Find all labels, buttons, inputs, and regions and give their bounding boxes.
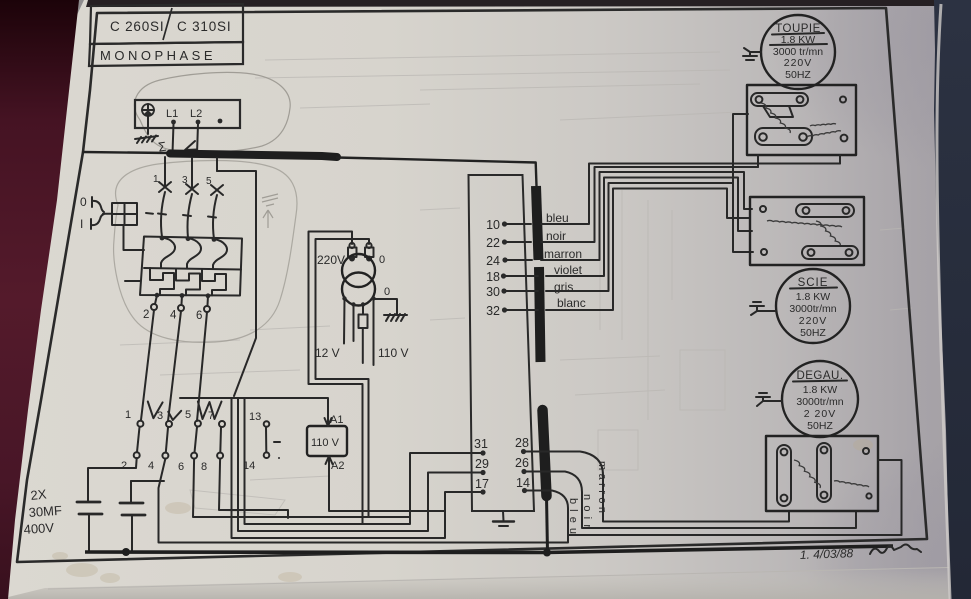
- secondary tap dots: [342, 296, 346, 300]
- main bottom wire thick: [85, 546, 893, 553]
- paper corner wedge top-left: [66, 0, 84, 15]
- svg-text:I: I: [80, 217, 83, 231]
- svg-text:0: 0: [384, 286, 390, 298]
- svg-text:C 310SI: C 310SI: [177, 19, 231, 34]
- transformer feed loop inner: [316, 239, 370, 517]
- svg-text:1: 1: [125, 409, 131, 421]
- TOUPIE right terminal: [841, 135, 848, 142]
- bus thin continuation to strip: [337, 158, 537, 187]
- svg-text:220V: 220V: [799, 315, 828, 327]
- wire pole6 down to aux contact 5: [197, 312, 207, 421]
- TOUPIE bracket: [763, 106, 793, 117]
- svg-text:1: 1: [153, 174, 159, 185]
- aux contact bottom circles: [134, 452, 223, 458]
- motor M3 DEGAU: [782, 361, 858, 437]
- DEGAU lower right terminal: [866, 493, 871, 498]
- manual actuator 0/I: [80, 195, 112, 231]
- svg-text:220V: 220V: [317, 253, 345, 267]
- svg-text:2 20V: 2 20V: [804, 408, 836, 420]
- A1 arrow: [325, 406, 332, 426]
- wire contact8 down: [219, 459, 288, 519]
- junction dot capacitors: [122, 548, 130, 556]
- wire 14 bleu lower: [527, 491, 902, 536]
- wire L2 to bus: [197, 124, 198, 154]
- svg-text:1. 4/03/88: 1. 4/03/88: [800, 546, 854, 562]
- overload outlet stems: [155, 295, 208, 305]
- svg-text:18: 18: [486, 270, 500, 284]
- terminal block TOUPIE: [747, 85, 856, 155]
- connector thick bar segment 2: [539, 267, 541, 362]
- right navy table background: [934, 0, 971, 599]
- main bus thick bar: [170, 154, 337, 158]
- svg-text:3000tr/mn: 3000tr/mn: [796, 396, 843, 408]
- terminal block DEGAU: [766, 436, 878, 511]
- contact 13-14 stroke: [265, 427, 267, 452]
- overload outlet circle 4: [178, 305, 184, 311]
- ground under earth terminal: [135, 116, 158, 143]
- inter-block link wire: [733, 114, 748, 197]
- thermal overload block outer: [140, 237, 242, 296]
- linkage zigzag between contacts: [148, 402, 222, 421]
- overload bottom dots: [155, 293, 160, 298]
- svg-text:400V: 400V: [23, 520, 55, 537]
- svg-text:8: 8: [201, 461, 207, 473]
- pencil blob around contactor: [114, 161, 297, 343]
- overload outlet circle 2: [151, 304, 157, 310]
- svg-text:0: 0: [379, 254, 385, 266]
- paper bottom shading below crease: [0, 566, 971, 599]
- svg-text:L2: L2: [190, 108, 202, 120]
- wire loop right of contactor: [217, 171, 256, 396]
- svg-text:12 V: 12 V: [315, 346, 340, 360]
- wire pole2 down to aux contact 1: [141, 310, 154, 420]
- svg-text:50HZ: 50HZ: [800, 327, 826, 339]
- SCIE winding horizontal: [767, 220, 842, 227]
- motor M1 TOUPIE: [761, 15, 835, 89]
- wire violet: [546, 178, 752, 277]
- svg-text:violet: violet: [554, 263, 583, 277]
- title block box C260SI/C310SI: [90, 4, 243, 44]
- svg-text:110 V: 110 V: [311, 437, 340, 449]
- SCIE winding diagonal: [816, 221, 840, 246]
- svg-text:4: 4: [148, 460, 154, 472]
- svg-text:17: 17: [475, 477, 489, 491]
- paper top-right grey corner shading: [770, 0, 971, 170]
- svg-text:26: 26: [515, 456, 529, 470]
- stains: [52, 439, 873, 583]
- title block box MONOPHASE: [89, 42, 243, 66]
- svg-text:110 V: 110 V: [378, 346, 408, 360]
- DEGAU winding diagonal: [794, 460, 820, 488]
- actuator link down to overload: [124, 226, 145, 250]
- signature: [870, 545, 921, 555]
- wire contact2 to capacitors: [88, 458, 137, 470]
- svg-text:6: 6: [196, 310, 202, 322]
- ground at DEGAU: [756, 393, 782, 406]
- mechanical link dashes: [146, 213, 216, 218]
- svg-text:marron: marron: [544, 247, 582, 261]
- A2 arrow: [326, 456, 333, 477]
- TOUPIE winding horizontal: [807, 131, 841, 137]
- pencil scribble arrows: [262, 194, 278, 228]
- terminal block SCIE: [750, 197, 864, 265]
- faint show-through print: [120, 52, 912, 515]
- svg-text:C 260SI: C 260SI: [110, 19, 164, 34]
- DEGAU spare terminal: [863, 448, 869, 454]
- wire 31 route: [245, 398, 482, 524]
- svg-text:1.8 KW: 1.8 KW: [796, 291, 831, 303]
- switch stroke pole 1: [161, 192, 165, 237]
- fuse on 110V tap: [359, 315, 368, 329]
- svg-text:0: 0: [80, 195, 87, 209]
- terminal strip box: [469, 175, 535, 511]
- svg-text:220V: 220V: [784, 57, 813, 69]
- phase mark angle: [185, 141, 197, 150]
- ground at transformer: [384, 314, 407, 321]
- svg-text:2X: 2X: [30, 486, 48, 503]
- svg-text:14: 14: [516, 476, 530, 490]
- relay coil K1: [307, 426, 347, 456]
- spare terminal dot: [218, 119, 223, 124]
- secondary tap wires: [344, 299, 374, 365]
- svg-text:13: 13: [249, 411, 261, 423]
- wire blanc: [546, 189, 750, 311]
- fuse F2: [365, 243, 374, 261]
- TOUPIE link bar top: [751, 93, 808, 106]
- motor M2 SCIE: [776, 269, 850, 343]
- connector tail to bottom wire: [547, 496, 548, 552]
- wire block bottom left: [757, 155, 759, 167]
- wire 17 route: [232, 398, 482, 538]
- breaker contact X pole 2: [186, 184, 198, 194]
- svg-text:3000tr/mn: 3000tr/mn: [789, 303, 836, 315]
- DEGAU link bar right: [817, 443, 831, 502]
- svg-text:50HZ: 50HZ: [785, 69, 811, 81]
- A1 wire to loop: [180, 398, 328, 406]
- aux switch strokes: [137, 427, 221, 453]
- left maroon table background: [0, 0, 79, 599]
- svg-text:10: 10: [486, 218, 500, 232]
- pencil blob around input box: [134, 72, 290, 152]
- overload heater steps row: [150, 268, 226, 295]
- DEGAU link bar left: [777, 445, 791, 506]
- svg-text:32: 32: [486, 304, 500, 318]
- fuse F1: [348, 243, 357, 261]
- wire 28 marron lower: [526, 452, 789, 522]
- svg-text:noir: noir: [546, 229, 566, 243]
- input terminal box: [135, 100, 240, 128]
- wire cap2 up: [131, 480, 164, 482]
- svg-text:gris: gris: [554, 280, 573, 294]
- svg-text:30: 30: [486, 285, 500, 299]
- svg-text:bleu: bleu: [567, 498, 579, 534]
- svg-text:A1: A1: [330, 414, 343, 426]
- main bus line left segment: [83, 152, 170, 153]
- paper right edge highlight: [937, 4, 950, 599]
- transformer T1 primary: [342, 254, 375, 287]
- svg-text:L1: L1: [166, 108, 178, 120]
- DEGAU right wire loop: [878, 460, 902, 535]
- svg-text:22: 22: [486, 236, 500, 250]
- overload trip curves row: [161, 238, 227, 270]
- overload junction dots: [160, 236, 165, 241]
- dot mark: [278, 457, 280, 459]
- wire bleu: [541, 155, 840, 224]
- svg-text:5: 5: [185, 409, 191, 421]
- svg-text:A2: A2: [331, 460, 344, 472]
- wire pole4 down to aux contact 3: [168, 311, 181, 421]
- aux contact top circles: [137, 421, 225, 428]
- capacitor C1: [77, 470, 102, 551]
- strip ground: [493, 511, 514, 526]
- SCIE link bar top: [796, 204, 854, 217]
- bus junction dot L1: [170, 151, 175, 156]
- bottom crease line: [48, 567, 971, 589]
- DEGAU winding horizontal: [834, 481, 869, 487]
- dark strip along top edge: [86, 0, 938, 7]
- transformer T1 secondary: [342, 273, 375, 306]
- SCIE link bar bottom: [802, 246, 858, 259]
- svg-text:6: 6: [178, 461, 184, 473]
- TOUPIE spare terminal: [840, 97, 846, 103]
- secondary tap 0 to ground: [374, 299, 397, 315]
- dash mark next 13: [274, 441, 280, 443]
- switch stroke pole 2: [188, 194, 193, 238]
- capacitor C2: [120, 481, 145, 551]
- svg-text:4: 4: [170, 310, 177, 322]
- breaker contact X pole 3: [211, 185, 223, 195]
- breaker contact X pole 1: [159, 182, 171, 192]
- wire contact6 down: [193, 459, 410, 518]
- transformer feed loop outer: [309, 232, 363, 525]
- A2 wire down: [329, 477, 445, 511]
- contact 14 circle: [264, 452, 270, 458]
- wire contact4 down: [159, 459, 569, 543]
- wire noir: [541, 155, 758, 242]
- svg-text:31: 31: [474, 437, 488, 451]
- svg-text:2: 2: [121, 460, 127, 472]
- wire marron: [541, 172, 752, 260]
- junction dot connector tail: [543, 549, 551, 557]
- connector thick bar segment 3: [543, 410, 547, 496]
- ground at SCIE: [750, 302, 776, 315]
- svg-text:28: 28: [515, 436, 529, 450]
- switch stroke pole 3: [213, 195, 217, 239]
- svg-text:30MF: 30MF: [28, 503, 62, 520]
- wire 29 route: [238, 398, 481, 531]
- earth terminal circle: [142, 104, 154, 116]
- svg-text:24: 24: [486, 254, 500, 268]
- ground at TOUPIE: [743, 48, 761, 60]
- contact 13 circle: [264, 421, 270, 427]
- wire block bottom right: [839, 155, 841, 164]
- wire L1 to bus: [173, 124, 174, 153]
- SCIE left terminal top: [760, 206, 766, 212]
- SCIE left terminal bottom: [761, 249, 767, 255]
- actuator square block: [112, 203, 137, 225]
- contactor pole wires from bus: [164, 157, 166, 185]
- svg-text:29: 29: [475, 457, 489, 471]
- wire gris: [546, 183, 753, 291]
- connector thick bar segment 1: [536, 186, 539, 260]
- overload outlet circle 6: [204, 306, 210, 312]
- svg-text:50HZ: 50HZ: [807, 420, 833, 432]
- wire 26 noir lower: [526, 472, 856, 529]
- svg-text:2: 2: [143, 309, 149, 321]
- TOUPIE link bar bottom: [755, 128, 812, 145]
- svg-text:1.8 KW: 1.8 KW: [803, 384, 838, 396]
- TOUPIE winding diagonal: [761, 103, 790, 133]
- svg-text:blanc: blanc: [557, 296, 586, 310]
- svg-text:bleu: bleu: [546, 211, 569, 225]
- svg-text:MONOPHASE: MONOPHASE: [100, 48, 216, 63]
